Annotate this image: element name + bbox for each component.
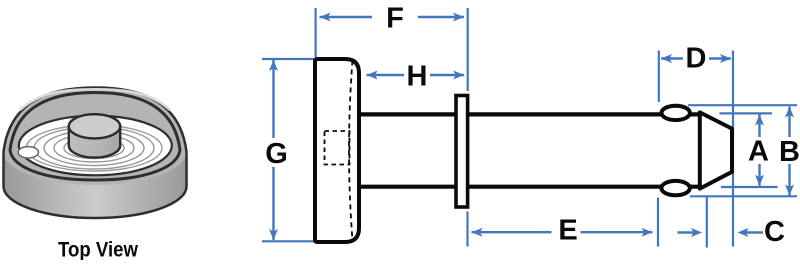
dimension E extension line right <box>657 198 659 247</box>
dimension H left arrow <box>367 74 405 76</box>
dimension B extension line bottom <box>690 195 797 197</box>
dimension C left-pointing arrow <box>742 231 763 233</box>
dimension A arrow line <box>758 115 760 138</box>
dimension A extension line bottom <box>721 186 778 188</box>
pin head dashed dome edge <box>349 61 353 241</box>
dimension D left arrow <box>661 57 683 59</box>
top view: boss side <box>69 126 120 157</box>
svg-text:D: D <box>686 43 707 75</box>
dimension E extension line left <box>466 212 468 247</box>
top view: highlight ellipse <box>18 147 38 158</box>
dimension A extension line top <box>720 112 773 114</box>
dimension F extension line right <box>467 8 469 91</box>
top view: recess floor <box>19 116 172 176</box>
svg-text:F: F <box>386 3 404 35</box>
top view: boss top <box>69 114 120 138</box>
top view: outer body silhouette <box>4 88 187 219</box>
svg-text:B: B <box>779 136 800 168</box>
top view: rim inner edge <box>10 93 180 181</box>
svg-text:A: A <box>748 136 769 168</box>
locking ball bottom <box>661 181 689 195</box>
dimension G extension line top <box>262 58 316 60</box>
top view: side wall shading <box>4 152 187 218</box>
dimension H right arrow <box>430 74 464 76</box>
dimension F right arrow <box>418 16 464 18</box>
pin head hidden hole (dashed rectangle) <box>325 131 350 165</box>
svg-text:C: C <box>764 216 785 248</box>
dimension D right arrow <box>709 57 731 59</box>
pin shaft bottom line <box>359 185 701 189</box>
dimension G arrow line <box>272 60 274 138</box>
top view: groove ring 4 <box>34 127 154 169</box>
top view: groove ring 1 <box>64 138 124 159</box>
svg-text:E: E <box>558 214 577 246</box>
svg-text:H: H <box>407 61 428 93</box>
dimension G extension line bottom <box>262 240 316 242</box>
svg-text:Top View: Top View <box>58 238 138 261</box>
dimension F extension line left <box>315 8 317 57</box>
pin head <box>315 59 359 242</box>
pin shaft top line <box>359 112 701 116</box>
top view: groove ring 2 <box>54 134 134 162</box>
collar flange <box>456 96 468 208</box>
dimension F left arrow <box>320 16 373 18</box>
top view: groove ring 3 <box>44 131 144 166</box>
svg-text:G: G <box>265 138 288 170</box>
dimension C right-pointing arrow <box>678 231 698 233</box>
top view: groove ring 5 <box>26 125 162 171</box>
dimension D extension line right (shared with C) <box>732 51 734 247</box>
locking ball top <box>662 106 690 120</box>
dimension E right arrow <box>581 231 653 233</box>
dimension B extension line top <box>688 104 797 106</box>
dimension C extension line left <box>706 197 708 248</box>
dimension E left arrow <box>472 231 552 233</box>
dimension D extension line left <box>658 51 660 103</box>
top view: rim top highlight <box>20 89 170 110</box>
pin nose (chamfered tip) <box>700 112 732 188</box>
top view: outer silhouette outline <box>4 88 187 219</box>
dimension B arrow line <box>788 107 790 138</box>
